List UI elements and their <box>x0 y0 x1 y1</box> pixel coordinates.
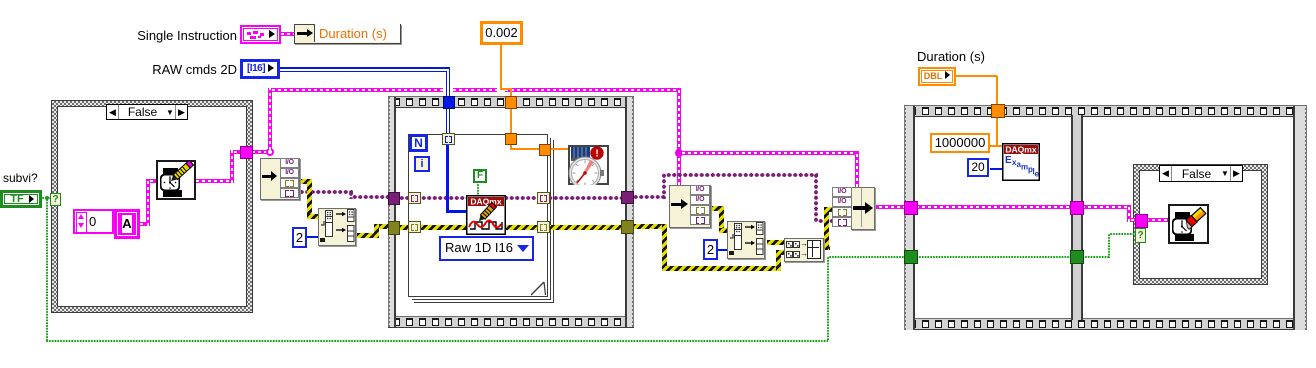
wire purple: unbundle UB0 out <box>299 190 353 194</box>
constant 20 <box>967 158 989 177</box>
svg-text:!: ! <box>595 149 598 160</box>
tunnel pink CS1 right <box>240 146 253 159</box>
bundle-by-name BN1 <box>851 187 875 230</box>
wire pink: CS2 tunnel to icon FDT2 <box>1146 218 1168 222</box>
tunnel orange stack right <box>539 144 551 156</box>
label Single Instruction <box>125 28 237 43</box>
tunnel blue on loop top <box>443 96 455 109</box>
flat sequence border <box>904 105 1307 117</box>
wire pink: J2 right to bundle BN1 <box>682 151 857 155</box>
wire green: down to bottom rail <box>46 199 48 341</box>
constant 0.002 <box>480 21 523 45</box>
wire green: riser to sequence <box>827 257 829 340</box>
svg-text:e: e <box>1035 170 1040 179</box>
tunnel pink CS2 left <box>1135 214 1148 228</box>
page curl <box>531 279 548 296</box>
unbundle-by-name UB1 Duration (s) <box>294 24 401 44</box>
build array BA1 <box>784 238 824 262</box>
tunnel orange stack top <box>505 133 517 145</box>
tunnel pink divider <box>1070 201 1084 215</box>
polymorphic selector Raw 1D I16 <box>439 236 532 259</box>
wire pink: CS1 tunnel to junction J1 <box>252 150 268 154</box>
wire pink: frame 2 to CS2 <box>1082 205 1131 209</box>
wire error: split SP1 out to loop <box>357 233 379 238</box>
selector tunnel CS2 <box>1135 228 1146 243</box>
wire purple: long bypass to bundle BN1 <box>666 173 818 177</box>
label subvi? <box>3 171 38 185</box>
tunnel pink sequence left <box>904 201 918 215</box>
wire blue: constant 2b to split SP2 <box>718 249 728 251</box>
wire pink: across frame 1 <box>916 205 1072 209</box>
tunnel olive loop left <box>388 221 400 235</box>
control RAW cmds 2D I16 array terminal <box>240 59 280 79</box>
split array SP1 <box>318 208 357 247</box>
case selector CS1 False <box>106 104 188 120</box>
wire blue: constant 2a to split SP1 <box>306 236 318 238</box>
indexing tunnel olive stack right <box>537 221 550 233</box>
wire blue 2D: loop tunnel to stack tunnel <box>446 107 448 134</box>
wire blue 1D: to DAQmx read <box>446 145 449 213</box>
case structure CS2 border <box>1133 164 1268 285</box>
wire error: through for loop <box>399 225 622 230</box>
indexing tunnel olive stack left <box>408 221 421 233</box>
wire error: unbundle UB0 to split SP1 <box>299 179 312 184</box>
label RAW cmds 2D <box>142 62 237 77</box>
constant 2 left <box>292 227 307 248</box>
unbundle-by-name UB0 <box>260 158 300 200</box>
constant 1000000 <box>930 133 990 153</box>
junction J2 <box>675 149 683 157</box>
control Duration DBL terminal <box>918 67 956 86</box>
wire pink: down to junction J2 <box>677 88 681 153</box>
wire error: unbundle UB2 to split SP2 <box>710 206 724 211</box>
wire orange: 0.002 down to loop <box>500 45 502 89</box>
wire orange: tunnel down to example VI <box>996 117 998 147</box>
wire error: split SP2 to build array BA1 <box>767 240 784 245</box>
wire purple: loop to riser <box>633 195 665 199</box>
svg-text:DAQmx: DAQmx <box>1005 145 1036 155</box>
wire orange: inside loop to elapsed time <box>510 107 512 135</box>
tunnel purple loop left <box>388 192 400 205</box>
numeric control 0 with spinner <box>73 209 114 234</box>
constant F false <box>473 169 487 183</box>
wire pink: cluster control to unbundle UB1 <box>281 32 294 36</box>
wire green: frame 2 to CS2 selector <box>1082 256 1110 258</box>
split array SP2 <box>727 221 766 260</box>
icon DAQmx Example VI <box>1002 143 1040 181</box>
tunnel olive loop right <box>621 220 634 234</box>
wire green: bottom rail <box>46 340 828 342</box>
tunnel green sequence left <box>904 250 918 264</box>
wire pink: junction J1 up and across top <box>268 88 272 150</box>
tunnel purple loop right <box>621 191 634 204</box>
icon FDT2 watch and eraser pencil <box>1168 204 1209 244</box>
case structure CS1 border <box>51 100 253 313</box>
svg-text:E: E <box>1005 155 1012 166</box>
icon FDT1 watch and pencil <box>156 160 196 200</box>
indexing tunnel blue stack top <box>442 133 455 145</box>
loop iteration terminal i <box>414 156 430 172</box>
wire blue 2D: I16 control to loop <box>280 67 450 69</box>
unbundle-by-name UB2 <box>669 185 711 228</box>
tunnel orange on loop top <box>505 96 517 109</box>
tunnel orange sequence top <box>991 104 1005 118</box>
junction J1 <box>266 148 274 156</box>
label Duration (s) top right <box>917 49 985 64</box>
wire pink: numeric A to icon FDT1 <box>140 222 150 226</box>
svg-text:DAQmx: DAQmx <box>470 197 501 207</box>
numeric radix A box <box>114 209 140 239</box>
wire error: bottom run to build array BA1 <box>662 266 781 271</box>
control Single Instruction cluster terminal <box>240 25 281 44</box>
case selector CS2 False <box>1159 165 1243 182</box>
indexing tunnel purple stack left <box>408 192 421 204</box>
wire error: loop out down to bottom run <box>633 224 667 229</box>
wire green: across frame 1 <box>916 256 1072 258</box>
icon DAQmx Read <box>466 195 506 235</box>
junction green at TF <box>45 196 49 200</box>
indexing tunnel purple stack right <box>537 192 550 204</box>
constant 2 right <box>703 239 718 260</box>
selector tunnel CS1 <box>50 193 61 206</box>
flat sequence divider <box>1071 115 1083 320</box>
wire purple: through for loop <box>399 196 622 200</box>
stacked frame structure <box>412 138 551 300</box>
wire pink: icon FDT1 to CS1 tunnel <box>196 179 234 183</box>
tunnel green divider <box>1070 250 1084 264</box>
wire error: build array BA1 up to bundle BN1 <box>823 245 830 250</box>
loop count terminal N <box>409 134 428 152</box>
wire blue: constant 20 to example VI <box>990 168 1003 170</box>
control subvi? TF terminal <box>0 190 42 208</box>
wire orange: DBL to sequence <box>956 75 997 77</box>
wire pink: J2 down into unbundle UB2 <box>677 156 681 185</box>
wire green F to DAQmx read <box>477 184 479 195</box>
wire pink: bundle BN1 out to sequence <box>873 205 906 209</box>
icon Elapsed Time express VI <box>568 145 609 185</box>
wire green: TF to selector tunnel <box>42 197 51 199</box>
for loop border <box>388 96 634 108</box>
